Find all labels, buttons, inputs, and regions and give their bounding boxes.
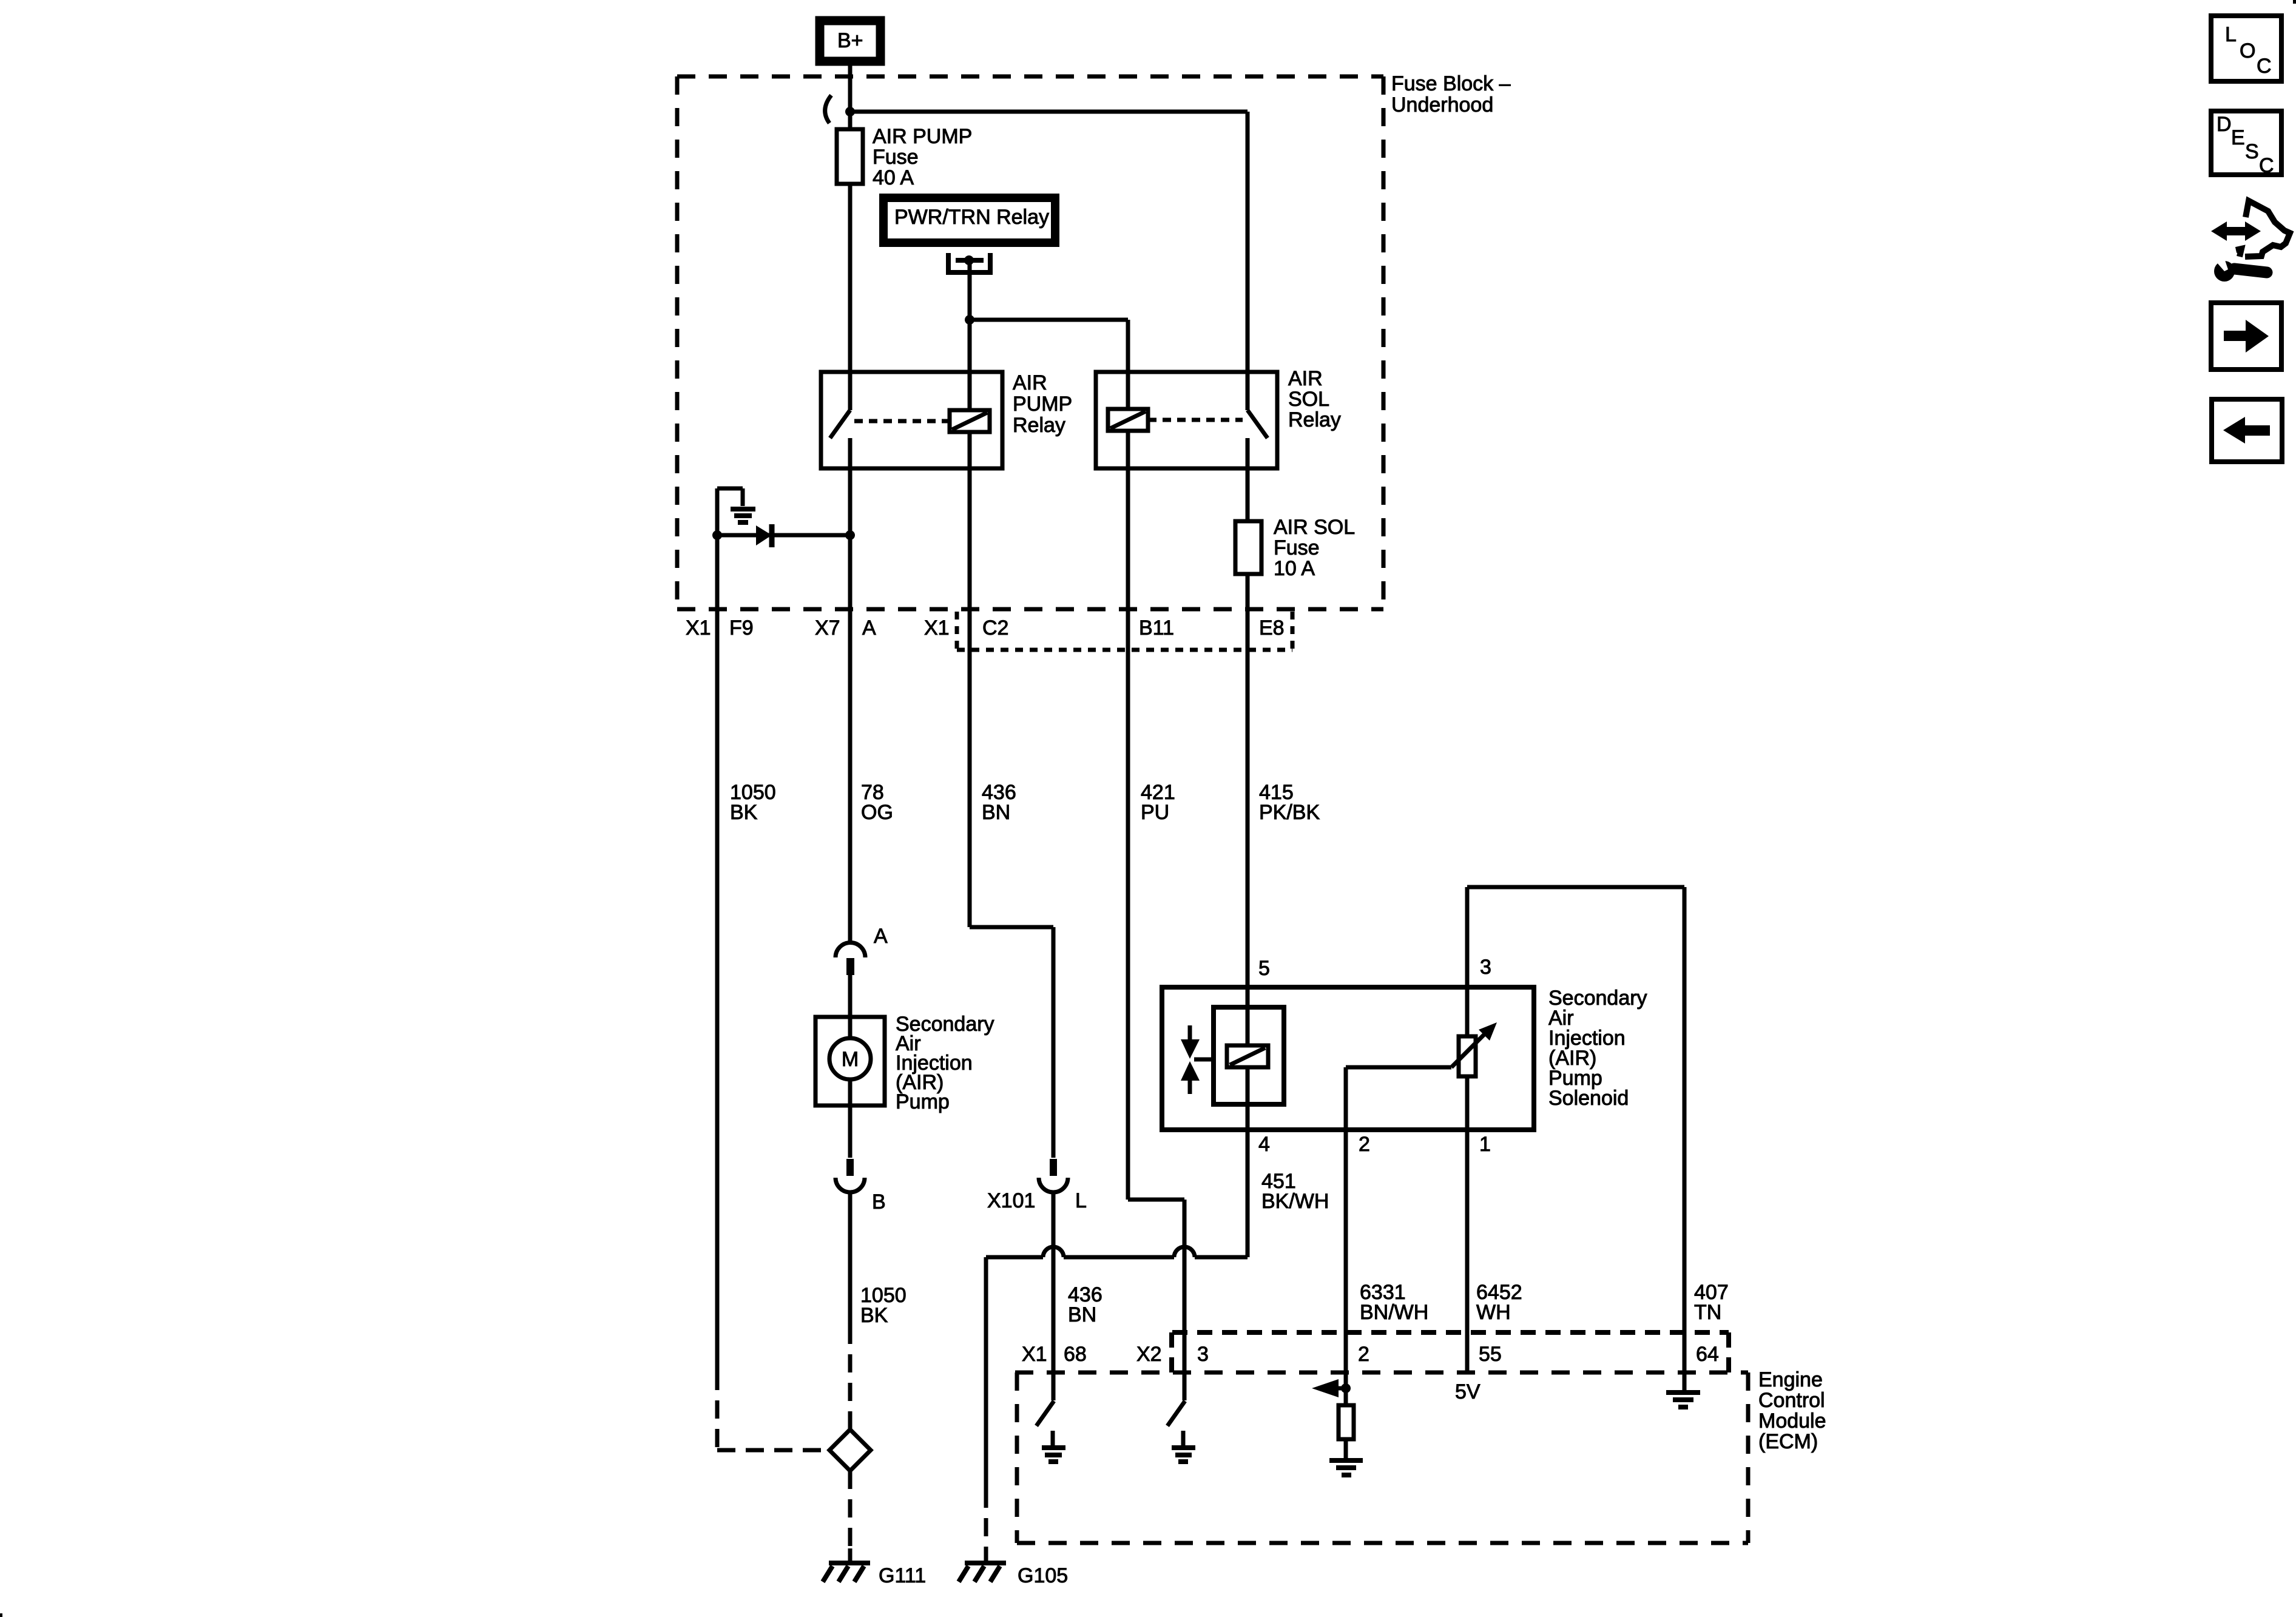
svg-text:2: 2: [1359, 1133, 1370, 1156]
svg-text:Underhood: Underhood: [1391, 93, 1493, 116]
svg-text:AIR: AIR: [1288, 367, 1323, 390]
svg-text:BN/WH: BN/WH: [1360, 1301, 1428, 1324]
svg-text:C2: C2: [982, 616, 1008, 640]
svg-text:Solenoid: Solenoid: [1548, 1087, 1629, 1110]
svg-text:Fuse Block –: Fuse Block –: [1391, 72, 1511, 95]
svg-text:3: 3: [1197, 1343, 1209, 1366]
svg-text:X1: X1: [924, 616, 950, 640]
svg-text:BN: BN: [1068, 1303, 1096, 1326]
svg-text:BK: BK: [860, 1304, 888, 1327]
svg-text:TN: TN: [1694, 1301, 1721, 1324]
svg-text:4: 4: [1258, 1133, 1270, 1156]
svg-text:F9: F9: [729, 616, 754, 640]
svg-text:M: M: [842, 1048, 859, 1071]
svg-text:AIR PUMP: AIR PUMP: [873, 125, 972, 148]
svg-text:68: 68: [1064, 1343, 1087, 1366]
svg-text:Module: Module: [1758, 1409, 1826, 1433]
svg-text:B11: B11: [1139, 616, 1174, 640]
svg-text:X101: X101: [987, 1189, 1035, 1212]
svg-text:(ECM): (ECM): [1758, 1430, 1818, 1453]
svg-text:PK/BK: PK/BK: [1259, 801, 1320, 824]
svg-text:G111: G111: [879, 1564, 926, 1587]
svg-text:AIR: AIR: [1013, 371, 1047, 394]
svg-text:Pump: Pump: [896, 1090, 950, 1113]
svg-text:5: 5: [1258, 957, 1270, 980]
svg-text:L: L: [2225, 23, 2237, 46]
svg-text:B+: B+: [837, 29, 863, 52]
svg-text:10 A: 10 A: [1274, 557, 1315, 580]
svg-text:PWR/TRN Relay: PWR/TRN Relay: [894, 206, 1049, 229]
svg-text:Fuse: Fuse: [873, 146, 919, 169]
svg-text:2: 2: [1358, 1343, 1369, 1366]
svg-text:BK/WH: BK/WH: [1261, 1190, 1329, 1213]
svg-text:D: D: [2217, 113, 2232, 136]
svg-text:3: 3: [1480, 956, 1491, 979]
svg-text:B: B: [872, 1190, 886, 1214]
svg-text:E8: E8: [1259, 616, 1285, 640]
svg-text:Fuse: Fuse: [1274, 536, 1320, 559]
svg-text:PU: PU: [1141, 801, 1169, 824]
svg-text:Relay: Relay: [1013, 414, 1065, 437]
svg-text:SOL: SOL: [1288, 388, 1329, 411]
svg-text:A: A: [862, 616, 876, 640]
svg-text:X2: X2: [1136, 1343, 1162, 1366]
svg-text:X7: X7: [815, 616, 840, 640]
svg-text:1: 1: [1479, 1133, 1491, 1156]
svg-text:64: 64: [1696, 1343, 1719, 1366]
svg-text:G105: G105: [1018, 1564, 1068, 1587]
svg-text:AIR SOL: AIR SOL: [1274, 516, 1355, 539]
svg-text:X1: X1: [1022, 1343, 1047, 1366]
svg-text:BK: BK: [730, 801, 758, 824]
svg-text:BN: BN: [982, 801, 1010, 824]
svg-text:C: C: [2259, 154, 2274, 177]
svg-text:E: E: [2231, 126, 2245, 149]
svg-text:X1: X1: [686, 616, 711, 640]
svg-text:C: C: [2257, 55, 2272, 78]
svg-text:S: S: [2245, 140, 2259, 163]
svg-text:L: L: [1075, 1189, 1087, 1212]
svg-text:OG: OG: [861, 801, 893, 824]
svg-text:Control: Control: [1758, 1389, 1825, 1412]
svg-text:A: A: [874, 925, 888, 948]
svg-text:WH: WH: [1476, 1301, 1511, 1324]
svg-text:O: O: [2240, 39, 2255, 62]
svg-text:55: 55: [1479, 1343, 1502, 1366]
svg-text:5V: 5V: [1455, 1380, 1481, 1403]
svg-text:Relay: Relay: [1288, 408, 1341, 431]
svg-text:40 A: 40 A: [873, 166, 914, 189]
svg-text:Engine: Engine: [1758, 1368, 1823, 1391]
svg-text:PUMP: PUMP: [1013, 393, 1072, 416]
